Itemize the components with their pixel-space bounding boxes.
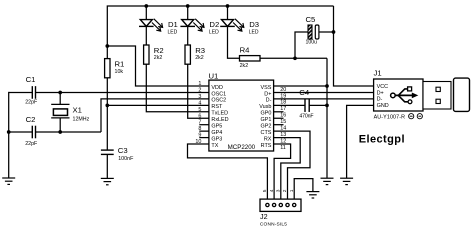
svg-text:100u: 100u: [306, 40, 318, 46]
svg-text:MCP2200: MCP2200: [228, 144, 256, 151]
ground (VSS column): [321, 178, 334, 184]
J1 polarity marks: [409, 114, 423, 119]
wire OSC1 net (C1/X1 to U1 pin 2): [9, 91, 33, 93]
svg-text:VDD: VDD: [211, 85, 223, 91]
wire D3 cathode down to R4: [228, 27, 240, 59]
svg-text:5: 5: [262, 189, 268, 192]
U1 pin 20 VSS: [261, 85, 287, 93]
wire VCC top rail: [107, 6, 333, 59]
junction VSS / ground column: [325, 84, 329, 88]
resistor R3 2k2: [185, 45, 205, 64]
wire J2 pin 5 to ground: [294, 179, 313, 204]
U1 pin 4 RST: [198, 100, 223, 110]
capacitor C5 100u (polarized): [306, 15, 319, 46]
svg-text:D-: D-: [377, 97, 383, 103]
svg-text:LED: LED: [168, 30, 178, 36]
svg-text:4: 4: [269, 189, 275, 192]
connector J1 AU-Y1007-R body: [374, 68, 424, 120]
svg-text:D-: D-: [266, 98, 272, 104]
wire OSC2 net lower (C2/X1): [9, 131, 33, 133]
svg-text:D+: D+: [264, 91, 271, 97]
junction X1 / OSC1: [58, 91, 62, 95]
capacitor C1 22pF: [25, 75, 38, 105]
wire C5 negative to ground net: [295, 32, 308, 58]
capacitor C4 470nF: [299, 88, 313, 120]
svg-text:J1: J1: [374, 68, 382, 77]
wire RST net to U1 pin 4: [107, 104, 209, 106]
svg-text:VCC: VCC: [377, 84, 389, 90]
U1 pin 7 GP5: [198, 120, 222, 130]
U1 pin 1 VDD: [198, 81, 223, 91]
ground (C3): [101, 178, 114, 184]
svg-text:22pF: 22pF: [25, 141, 38, 147]
svg-text:GND: GND: [377, 103, 389, 109]
svg-text:VSS: VSS: [261, 85, 272, 91]
LED D1: [139, 6, 178, 36]
junction X1 / C2 net: [58, 130, 62, 134]
junction rail / D2: [186, 4, 190, 8]
svg-text:100nF: 100nF: [118, 156, 134, 162]
svg-text:2k2: 2k2: [240, 63, 249, 69]
wire VCC rail right drop to J1 VCC: [334, 6, 374, 86]
wire Vusb to C4: [274, 104, 305, 106]
svg-text:U1: U1: [209, 71, 219, 80]
J1 USB trident symbol: [391, 87, 419, 104]
svg-text:C3: C3: [118, 146, 128, 155]
wire C4 to ground column: [309, 104, 327, 106]
svg-text:X1: X1: [73, 105, 82, 114]
wire D2 cathode to R3: [187, 27, 189, 46]
svg-text:2: 2: [198, 87, 201, 93]
wire left ground drop: [8, 92, 10, 178]
svg-text:D1: D1: [168, 20, 178, 29]
capacitor C3 100nF: [101, 105, 134, 178]
resistor R2 2k2: [144, 45, 164, 64]
U1 pin 16 GP0: [261, 111, 287, 119]
junction rail / D1: [144, 4, 148, 8]
svg-text:GP0: GP0: [261, 111, 272, 117]
U1 pin 18 D-: [266, 98, 287, 106]
LED D3: [220, 6, 259, 36]
wire R1 bottom to RST node: [106, 78, 108, 106]
svg-text:C5: C5: [306, 15, 316, 24]
wire RX (pin 12) to J2 pin 3: [274, 138, 301, 204]
junction R1 / RST / C3: [105, 104, 109, 108]
svg-text:RTS: RTS: [261, 143, 272, 149]
svg-text:RST: RST: [211, 104, 223, 110]
svg-text:GP2: GP2: [261, 124, 272, 130]
svg-text:AU-Y1007-R: AU-Y1007-R: [374, 114, 406, 120]
svg-text:2: 2: [282, 189, 288, 192]
svg-text:7: 7: [198, 120, 201, 126]
svg-text:Electgpl: Electgpl: [359, 133, 405, 145]
svg-text:4: 4: [198, 100, 201, 106]
svg-text:6: 6: [198, 113, 201, 119]
svg-text:470nF: 470nF: [299, 113, 313, 119]
wire ground net drop (VSS column): [326, 58, 328, 178]
wire D+ net: [274, 91, 374, 93]
svg-text:22pF: 22pF: [25, 100, 38, 106]
wire R4 to ground net: [260, 57, 327, 59]
J1 USB plug shell: [423, 82, 451, 110]
U1 pin 2 OSC1: [198, 87, 226, 97]
U1 pin 9 GP3: [198, 133, 222, 143]
svg-text:R3: R3: [195, 46, 205, 55]
connector J2 CONN-SIL5: [260, 199, 301, 227]
svg-text:12MHz: 12MHz: [73, 117, 90, 123]
resistor R4 2k2 (horizontal): [240, 46, 261, 69]
svg-text:C4: C4: [299, 88, 310, 97]
ground (left): [2, 178, 15, 184]
U1 pin 15 GP1: [261, 117, 287, 125]
svg-text:C2: C2: [26, 115, 36, 124]
svg-text:3: 3: [276, 189, 282, 192]
svg-text:GP1: GP1: [261, 117, 272, 123]
svg-text:D3: D3: [249, 20, 259, 29]
J1 USB cable end cap: [454, 78, 470, 111]
svg-text:11: 11: [280, 145, 286, 151]
svg-text:C1: C1: [26, 75, 36, 84]
wire D1 cathode to R2: [145, 27, 147, 46]
junction C4 / ground column: [325, 104, 329, 108]
wire VDD branch to U1 pin 1: [107, 46, 209, 86]
svg-text:CTS: CTS: [261, 130, 272, 136]
svg-text:GP3: GP3: [211, 136, 222, 142]
svg-text:D2: D2: [209, 20, 219, 29]
svg-text:GP5: GP5: [211, 124, 222, 130]
U1 pin 3 OSC2: [198, 94, 226, 104]
LED D2: [180, 6, 219, 36]
svg-text:OSC2: OSC2: [211, 98, 226, 104]
wire D- net: [274, 98, 374, 100]
svg-text:TxLED: TxLED: [211, 111, 228, 117]
svg-text:TX: TX: [211, 143, 218, 149]
svg-text:5: 5: [198, 107, 201, 113]
U1 pin 17 Vusb: [259, 104, 286, 112]
wire J1 GND drop: [347, 105, 374, 178]
junction C5 / VCC rail: [332, 30, 336, 34]
svg-text:9: 9: [198, 133, 201, 139]
U1 pin 14 GP2: [261, 124, 287, 132]
svg-text:Vusb: Vusb: [259, 104, 271, 110]
svg-text:2k2: 2k2: [195, 55, 204, 61]
wire VSS (pin20) to ground net: [274, 85, 327, 87]
U1 pin 10 TX: [195, 139, 218, 149]
svg-text:CONN-SIL5: CONN-SIL5: [260, 221, 287, 227]
svg-text:LED: LED: [209, 30, 219, 36]
svg-text:R1: R1: [115, 60, 125, 69]
ground (J1 GND): [340, 178, 353, 184]
wire RTS (pin 11) to J2 pin 2: [274, 144, 291, 203]
svg-text:2k2: 2k2: [154, 55, 163, 61]
junction R4 / C5 negative: [293, 56, 297, 60]
svg-text:3: 3: [198, 94, 201, 100]
svg-text:RX: RX: [264, 136, 272, 142]
svg-text:1: 1: [198, 81, 201, 87]
svg-text:10k: 10k: [115, 69, 124, 75]
wire OSC2 riser to U1 pin 3: [101, 99, 209, 132]
U1 pin 6 RxLED: [198, 113, 228, 123]
svg-text:1: 1: [289, 189, 295, 192]
wire CTS (pin 13) to J2 pin 4: [274, 131, 310, 203]
svg-text:GP4: GP4: [211, 130, 222, 136]
resistor R1 10k: [105, 59, 125, 78]
svg-text:J2: J2: [260, 212, 268, 221]
wire TX (pin 10) to J2 pin 1: [188, 144, 268, 203]
capacitor C2 22pF: [25, 115, 38, 147]
ground (J2 pin5): [306, 192, 319, 198]
svg-text:8: 8: [198, 126, 201, 132]
U1 pin 19 D+: [264, 91, 286, 99]
junction C2 net / left drop: [7, 130, 11, 134]
U1 pin 13 CTS: [261, 130, 287, 138]
U1 pin 12 RX: [264, 136, 286, 144]
wire C5 positive to VCC rail: [319, 31, 334, 33]
U1 pin 5 TxLED: [198, 107, 228, 117]
op-amp U1 MCP2200 body: [209, 71, 274, 151]
U1 pin 8 GP4: [198, 126, 222, 136]
crystal X1 12MHz: [51, 92, 89, 132]
junction rail / D3: [226, 4, 230, 8]
svg-text:RxLED: RxLED: [211, 117, 228, 123]
U1 pin 11 RTS: [261, 143, 286, 151]
svg-text:OSC1: OSC1: [211, 91, 226, 97]
svg-text:LED: LED: [249, 30, 259, 36]
wire R2 to U1 pin 5 TxLED: [146, 64, 209, 112]
junction VCC/R1/VDD branch: [105, 44, 109, 48]
wire R3 to U1 pin 6 RxLED: [188, 64, 209, 118]
svg-text:D+: D+: [377, 90, 384, 96]
svg-text:R4: R4: [240, 46, 251, 55]
svg-text:R2: R2: [154, 46, 164, 55]
